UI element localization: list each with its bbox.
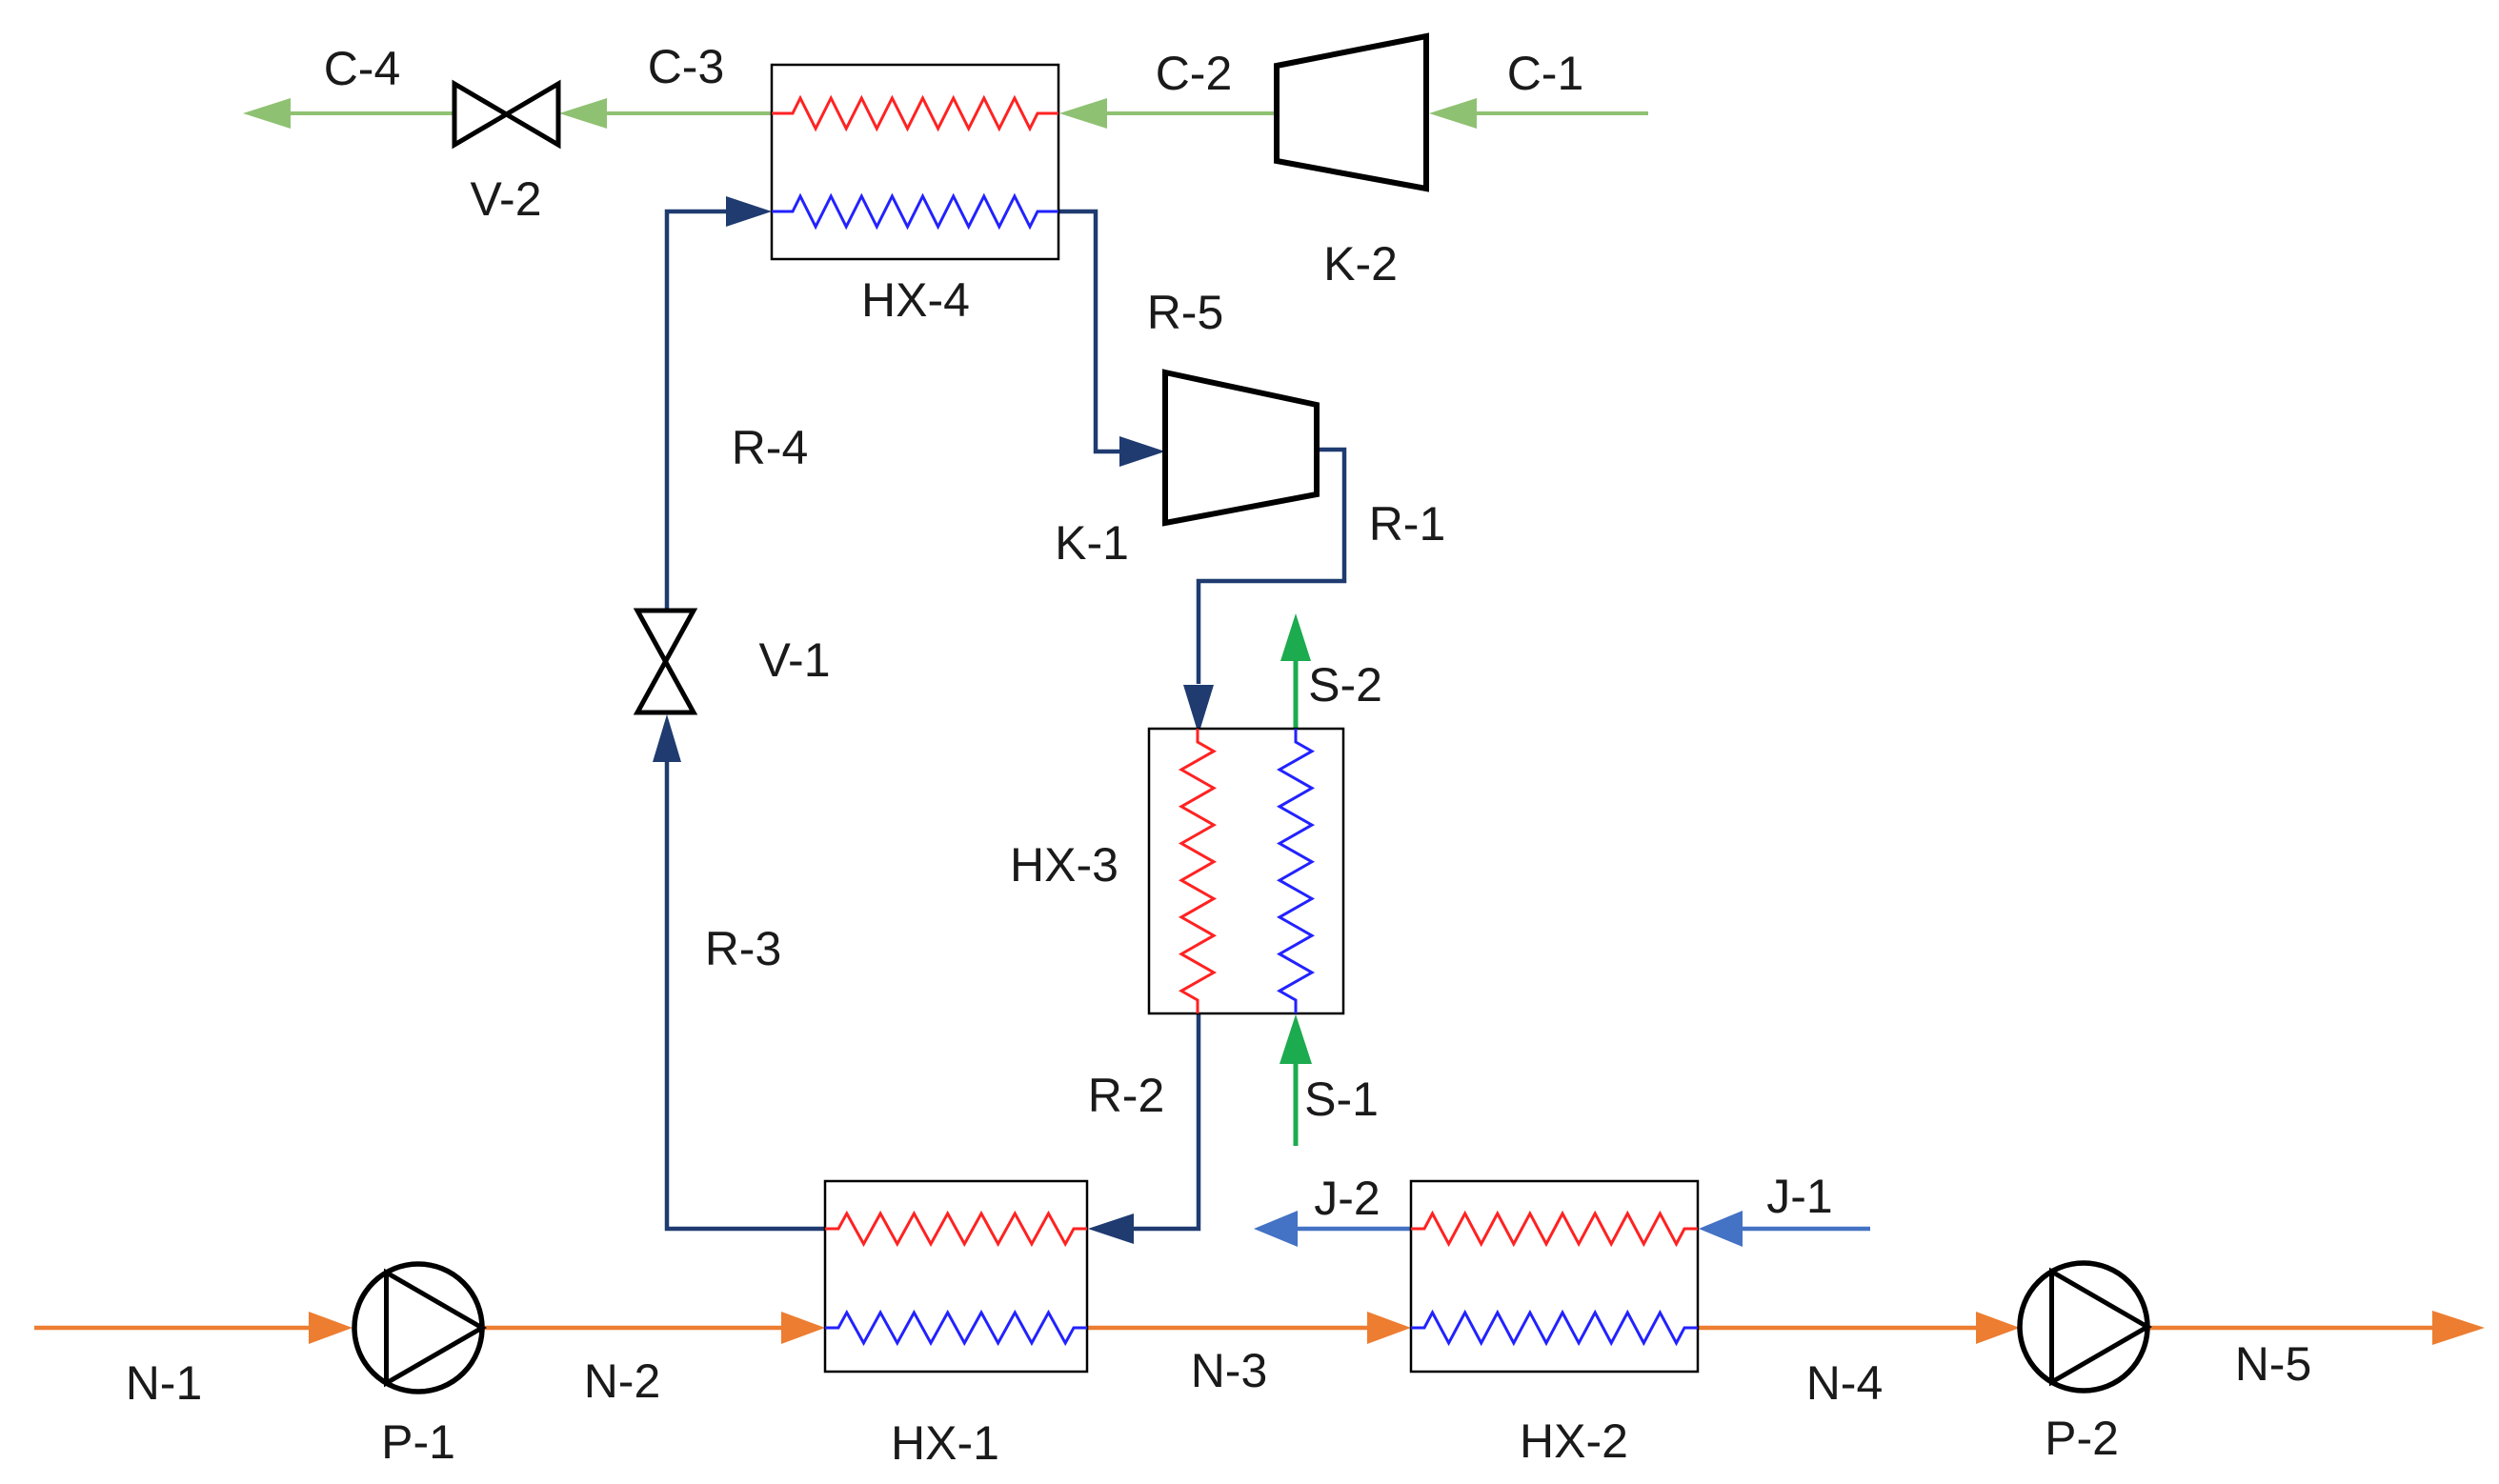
svg-text:C-4: C-4 bbox=[324, 42, 401, 95]
svg-text:K-2: K-2 bbox=[1323, 237, 1398, 291]
svg-text:HX-4: HX-4 bbox=[861, 273, 970, 327]
svg-text:S-1: S-1 bbox=[1304, 1073, 1379, 1126]
svg-text:HX-2: HX-2 bbox=[1520, 1414, 1628, 1468]
svg-text:HX-1: HX-1 bbox=[891, 1416, 999, 1470]
svg-text:V-2: V-2 bbox=[470, 172, 541, 226]
svg-text:N-5: N-5 bbox=[2235, 1337, 2312, 1391]
svg-text:P-2: P-2 bbox=[2045, 1412, 2119, 1465]
svg-text:C-3: C-3 bbox=[648, 40, 725, 93]
svg-text:C-1: C-1 bbox=[1507, 47, 1584, 100]
svg-text:R-4: R-4 bbox=[732, 421, 809, 474]
svg-text:C-2: C-2 bbox=[1156, 47, 1233, 100]
svg-text:N-4: N-4 bbox=[1806, 1356, 1884, 1410]
svg-text:N-3: N-3 bbox=[1191, 1344, 1268, 1397]
svg-text:R-5: R-5 bbox=[1147, 286, 1224, 339]
svg-text:N-1: N-1 bbox=[126, 1356, 203, 1410]
svg-text:J-2: J-2 bbox=[1314, 1172, 1380, 1225]
svg-text:K-1: K-1 bbox=[1055, 516, 1129, 570]
svg-text:R-1: R-1 bbox=[1369, 497, 1446, 551]
svg-text:P-1: P-1 bbox=[381, 1415, 455, 1469]
svg-text:N-2: N-2 bbox=[584, 1354, 661, 1408]
svg-text:R-2: R-2 bbox=[1088, 1069, 1165, 1122]
svg-text:R-3: R-3 bbox=[705, 922, 782, 975]
svg-text:V-1: V-1 bbox=[758, 633, 830, 687]
svg-text:J-1: J-1 bbox=[1766, 1170, 1832, 1223]
svg-text:HX-3: HX-3 bbox=[1010, 838, 1119, 892]
svg-text:S-2: S-2 bbox=[1308, 658, 1382, 712]
